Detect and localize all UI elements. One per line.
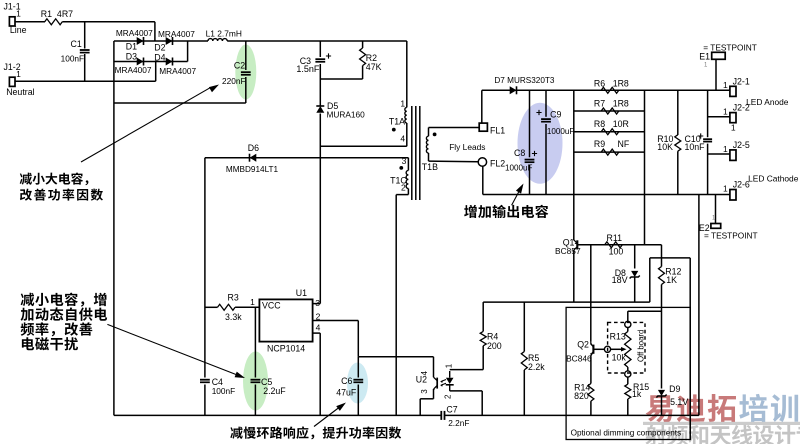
svg-text:R8: R8: [594, 119, 605, 129]
svg-text:1: 1: [16, 9, 21, 19]
wire ground riser right: [698, 195, 700, 416]
wire R1 to bridge AC1: [62, 21, 155, 23]
inductor L1: [208, 39, 227, 41]
annotation arrow to C2: [81, 88, 210, 162]
wire bridge row1 / DC rail: [114, 40, 208, 42]
wire sense bus left down to Q1 emitter: [573, 90, 575, 240]
svg-text:BC857: BC857: [555, 246, 581, 256]
zener diode D9: [656, 390, 666, 398]
diode D1: [137, 37, 144, 45]
svg-text:4: 4: [316, 323, 321, 333]
wire feedback top line: [483, 301, 650, 303]
C9 polarity mark: [536, 110, 541, 115]
svg-text:18V: 18V: [612, 275, 628, 285]
wire R4 top: [482, 302, 484, 331]
highlight ellipse around C8 C9: [518, 103, 563, 184]
wire R8 row: [574, 131, 645, 133]
wire pot top stem: [627, 311, 629, 321]
arrowhead to C8: [516, 182, 526, 194]
svg-text:NF: NF: [618, 139, 630, 149]
svg-text:3: 3: [402, 156, 407, 166]
transformer T1 core: [412, 106, 420, 200]
svg-text:Q2: Q2: [577, 340, 589, 350]
phase dot T1B: [433, 133, 437, 137]
svg-text:R9: R9: [594, 139, 605, 149]
svg-text:3.3k: 3.3k: [225, 312, 242, 322]
watermark divider bar: [643, 422, 800, 425]
svg-text:FL1: FL1: [490, 125, 505, 135]
svg-text:Neutral: Neutral: [6, 87, 34, 97]
wire D8 bottom: [634, 278, 636, 303]
svg-text:1: 1: [723, 80, 728, 90]
wire opto collector: [433, 357, 435, 377]
annotation increase output capacitance: [464, 205, 548, 218]
svg-text:J2-2: J2-2: [733, 103, 750, 113]
diode D2: [166, 37, 173, 45]
wire D8 top: [634, 245, 636, 269]
annotation line4: [22, 337, 78, 350]
svg-text:4: 4: [400, 133, 405, 143]
svg-text:T1B: T1B: [422, 162, 438, 172]
wire LED cathode to ground: [481, 391, 483, 416]
svg-text:100nF: 100nF: [212, 386, 236, 396]
resistor R14: [588, 384, 594, 402]
svg-text:4: 4: [420, 371, 429, 376]
wire T1C pin3 lead: [407, 158, 409, 171]
wire pot bottom lead: [627, 367, 629, 371]
svg-text:NCP1014: NCP1014: [267, 344, 305, 354]
transistor Q2 BC846: [590, 342, 594, 357]
resistor R3: [218, 304, 236, 310]
wire Q1 base row: [577, 244, 661, 246]
svg-text:LED Anode: LED Anode: [746, 97, 789, 107]
resistor R10: [675, 135, 681, 151]
diode D3: [137, 58, 144, 66]
svg-text:MMBD914LT1: MMBD914LT1: [226, 165, 279, 174]
wire C10 bottom / J2 spine: [707, 144, 709, 195]
svg-text:1R8: 1R8: [613, 98, 629, 108]
svg-text:D1: D1: [126, 41, 137, 51]
diode D7: [510, 86, 517, 94]
wire secondary plus rail: [482, 89, 730, 91]
capacitor C6: [353, 380, 363, 383]
svg-text:2.2k: 2.2k: [528, 362, 545, 372]
wire C3 to D5: [319, 64, 321, 106]
wire bridge row2: [114, 61, 188, 63]
svg-text:R3: R3: [228, 293, 239, 303]
highlight ellipse around C2: [235, 45, 256, 100]
wire R5 bottom: [523, 370, 525, 416]
svg-text:R1 4R7: R1 4R7: [41, 9, 73, 19]
svg-text:J2-1: J2-1: [733, 76, 750, 86]
wire R15 to ground: [627, 399, 629, 415]
wire Q2 base to wiper terminal: [594, 348, 604, 350]
annotation arrow to C5: [107, 324, 236, 374]
wire J2-5 stub: [708, 153, 730, 155]
phase dot T1C: [399, 166, 403, 170]
capacitor C4: [200, 380, 210, 383]
wire R5 top: [523, 302, 525, 351]
arrowhead to C6: [336, 400, 348, 411]
svg-text:BC846: BC846: [566, 354, 592, 364]
capacitor C1: [80, 50, 90, 53]
svg-text:2: 2: [444, 394, 453, 399]
wire snubber bottom: [320, 78, 362, 80]
potentiometer R13: [625, 332, 631, 368]
svg-text:D9: D9: [669, 384, 680, 394]
resistor R8: [601, 129, 619, 135]
resistor R4: [480, 331, 486, 345]
resistor R12: [659, 267, 665, 285]
wire R3 to U1 pin1: [235, 306, 259, 308]
wire C10 top / J2 spine: [707, 90, 709, 137]
wire wiper to R13: [611, 348, 622, 350]
C8 polarity mark: [532, 151, 537, 156]
connector J2-2: [730, 113, 736, 123]
wire C1 bottom: [84, 54, 86, 81]
svg-text:2: 2: [401, 182, 406, 192]
transformer winding T1A: [405, 107, 407, 123]
wire C5 to ground: [254, 385, 256, 416]
wire C2 return to DC minus: [114, 102, 246, 104]
svg-text:47uF: 47uF: [336, 388, 357, 398]
svg-text:D4: D4: [154, 52, 165, 62]
highlight ellipse around C6: [347, 363, 368, 404]
C3 polarity mark: [326, 53, 331, 58]
connector circle R13 top terminal: [625, 321, 631, 327]
svg-text:LED Cathode: LED Cathode: [748, 173, 799, 183]
wire AC1 down to D1-D2 junction: [154, 22, 156, 41]
svg-text:200: 200: [487, 341, 502, 351]
connector J1-2: [9, 77, 15, 86]
wire Q1 collector down: [573, 250, 575, 302]
wire J1-1 to R1: [15, 21, 45, 23]
capacitor C3: [315, 59, 325, 62]
wire emitter to ground: [419, 399, 421, 416]
connector J1-1: [9, 17, 15, 26]
svg-text:1: 1: [731, 123, 736, 133]
transformer winding T1B: [426, 136, 428, 153]
svg-text:C2: C2: [234, 61, 245, 71]
svg-text:1000uF: 1000uF: [505, 164, 533, 173]
wire AC2 up to D3-D4 junction: [155, 62, 157, 82]
resistor R15: [625, 384, 631, 399]
wire R10 bottom: [677, 151, 679, 194]
wire opto emitter: [433, 389, 435, 399]
resistor R1: [45, 19, 63, 25]
dashed off-board box for R13: [608, 322, 645, 373]
testpoint E1 pad: [712, 52, 726, 59]
svg-text:10nF: 10nF: [685, 142, 706, 152]
watermark blue text 培训: [739, 394, 798, 422]
svg-text:= TESTPOINT: = TESTPOINT: [703, 43, 757, 53]
wiper arrowhead: [621, 347, 627, 352]
svg-text:1: 1: [445, 363, 454, 368]
wire opto LED anode to R4: [450, 369, 484, 371]
svg-text:R7: R7: [594, 98, 605, 108]
wire R12 to D9: [661, 285, 663, 389]
svg-text:FL2: FL2: [490, 158, 505, 168]
diode D6: [250, 154, 257, 162]
resistor R7: [601, 108, 619, 114]
annotation reduce bulk capacitor line1: [20, 172, 89, 185]
highlight ellipse around C5: [243, 352, 268, 411]
wire Neutral from J1-2: [15, 80, 156, 82]
wire C8 bottom: [529, 165, 531, 195]
connector J2-1: [730, 86, 736, 96]
wire R12 top: [661, 245, 663, 267]
opto light arrows: [441, 380, 446, 386]
svg-text:10R: 10R: [613, 119, 629, 129]
connector FL2: [478, 158, 486, 166]
wire pot top lead: [627, 328, 629, 332]
testpoint E2 pad: [711, 224, 721, 229]
svg-text:Fly Leads: Fly Leads: [449, 142, 485, 152]
wire R9 row: [574, 151, 645, 153]
resistor R5: [521, 352, 527, 370]
svg-text:R11: R11: [607, 233, 623, 243]
wire pot top to R12 net: [628, 310, 662, 312]
wire J2-2 stub: [708, 116, 730, 118]
watermark red text 易迪拓: [646, 394, 736, 422]
connector FL1: [479, 123, 487, 131]
connector J2-5: [730, 150, 736, 161]
wire R2 top: [362, 41, 364, 48]
capacitor C7: [441, 411, 444, 420]
annotation line3: [21, 322, 93, 336]
wire T1A pin4 lead: [406, 123, 408, 146]
svg-text:5.1V: 5.1V: [670, 397, 688, 407]
arrowhead to C2: [209, 82, 221, 92]
svg-text:1: 1: [400, 99, 405, 109]
svg-text:MRA4007: MRA4007: [116, 28, 153, 38]
wire C5 top: [254, 307, 256, 377]
wire U1 pin2 feedback: [313, 320, 359, 322]
wire down right side of optional box: [689, 258, 691, 440]
svg-text:J2-6: J2-6: [733, 179, 750, 189]
svg-text:J2-5: J2-5: [733, 140, 750, 150]
wire bridge right node: [187, 41, 189, 62]
wire T1C return to ground: [395, 195, 397, 416]
wire T1A pin1 lead: [406, 41, 408, 107]
svg-text:Optional dimming components: Optional dimming components: [571, 429, 682, 438]
svg-text:Off board: Off board: [637, 330, 646, 362]
annotation line2: [21, 307, 108, 320]
svg-text:C7: C7: [446, 404, 457, 414]
annotation arrow to C8: [512, 190, 520, 206]
wire R14 to ground: [590, 401, 592, 415]
svg-text:1: 1: [250, 297, 255, 307]
wire U1 pin4 stub: [313, 332, 321, 334]
svg-text:1: 1: [16, 69, 21, 79]
wire C8 top: [529, 90, 531, 157]
wire aux to R3 and C4: [204, 158, 206, 378]
svg-text:T1A: T1A: [389, 117, 405, 127]
svg-text:C9: C9: [550, 110, 561, 120]
wire elbow right: [650, 257, 690, 259]
svg-text:1: 1: [723, 107, 728, 117]
wire T1B to FL2: [429, 160, 479, 163]
svg-text:3: 3: [315, 298, 320, 308]
opto U2 LED: [449, 371, 451, 378]
resistor R9: [601, 149, 619, 155]
wire feedback to opto collector: [358, 356, 433, 358]
svg-text:2.2uF: 2.2uF: [263, 386, 286, 396]
wire aux T1C pin3 to D6: [205, 157, 409, 159]
svg-text:MRA4007: MRA4007: [158, 29, 195, 39]
svg-text:1k: 1k: [632, 389, 642, 399]
transformer winding T1C: [406, 170, 408, 188]
wire R3 left: [205, 306, 218, 308]
svg-text:R6: R6: [594, 79, 605, 89]
wire C3 top: [319, 41, 321, 57]
wire T1B bottom stub: [428, 153, 430, 161]
svg-text:100: 100: [609, 247, 624, 257]
phase dot T1A: [392, 128, 396, 132]
svg-text:R13: R13: [610, 331, 626, 341]
capacitor C5: [251, 380, 261, 383]
capacitor C8: [525, 160, 535, 163]
svg-text:VCC: VCC: [262, 301, 281, 311]
wire C9 bottom: [545, 124, 547, 195]
wire T1B to FL1: [429, 127, 479, 129]
wire DC minus left vertical: [113, 41, 115, 415]
connector J2-6: [730, 190, 736, 201]
wire R2 bottom: [362, 66, 364, 79]
wire R10 top: [677, 90, 679, 135]
wire U1 pin4 to ground: [319, 333, 321, 415]
wire T1C pin2: [396, 194, 408, 196]
diode D5: [316, 106, 324, 113]
annotation improve PF line2: [20, 189, 103, 201]
svg-text:U1: U1: [296, 288, 307, 298]
diode D4: [166, 58, 173, 66]
wire drain vertical to U1 pin3: [319, 114, 321, 304]
wire feedback down: [357, 321, 359, 357]
connector circle pot wiper: [604, 346, 610, 352]
opto transistor U2: [434, 377, 438, 380]
svg-text:E1: E1: [699, 52, 710, 62]
resistor R6: [601, 87, 619, 93]
op-amp U1 NCP1014 body: [259, 299, 312, 341]
svg-text:D7 MURS320T3: D7 MURS320T3: [494, 76, 555, 85]
connector circle R13 bottom terminal: [625, 371, 631, 377]
wire rail L1 to T1A pin1: [227, 40, 407, 42]
wire E2 stem: [715, 195, 717, 224]
svg-text:1.5nF: 1.5nF: [296, 64, 320, 74]
svg-text:D6: D6: [248, 143, 259, 153]
transistor Q1 BC857: [574, 240, 578, 250]
wire C9 top: [545, 90, 547, 117]
optional dimming components box: [566, 307, 690, 439]
wire R7 row: [574, 110, 645, 112]
zener diode D8: [630, 271, 640, 279]
capacitor C10: [703, 139, 712, 141]
wire C2 bottom: [245, 77, 247, 103]
wire R4 bottom: [482, 346, 484, 370]
svg-text:10k: 10k: [612, 353, 627, 363]
wire secondary ground rail right: [483, 194, 730, 196]
wire C4 to ground: [204, 385, 206, 416]
capacitor C2: [241, 72, 251, 75]
svg-text:1K: 1K: [666, 275, 677, 285]
wire C2 top: [245, 41, 247, 70]
svg-text:C6: C6: [341, 376, 352, 386]
wire FL2 elbow: [482, 166, 484, 194]
svg-text:L1 2.7mH: L1 2.7mH: [206, 29, 242, 39]
svg-text:MURA160: MURA160: [327, 110, 366, 120]
svg-text:D3: D3: [126, 51, 137, 61]
wire C1 top: [84, 22, 86, 49]
svg-text:100nF: 100nF: [61, 54, 85, 64]
arrowhead to C5: [235, 372, 246, 381]
wire C6 to ground: [357, 385, 359, 416]
resistor R11: [605, 242, 623, 248]
wire D9 to ground: [661, 397, 663, 416]
svg-text:MRA4007: MRA4007: [115, 65, 152, 75]
wire pot to R15: [627, 377, 629, 384]
svg-text:1000uF: 1000uF: [547, 127, 575, 136]
svg-text:MRA4007: MRA4007: [159, 66, 196, 76]
wire Q1 base row to Q2 collector: [590, 245, 592, 342]
svg-text:C8: C8: [514, 148, 525, 158]
svg-text:10K: 10K: [657, 142, 673, 152]
watermark grey text 射频和天线设计专家: [645, 425, 800, 444]
wire U1 pin3 stub: [313, 303, 321, 305]
svg-text:C1: C1: [71, 39, 82, 49]
svg-text:2.2nF: 2.2nF: [448, 418, 469, 428]
svg-text:3: 3: [420, 389, 429, 394]
wire emitter elbow: [420, 398, 433, 400]
wire sense bus right down to R11: [644, 90, 646, 245]
svg-text:D2: D2: [154, 43, 165, 53]
wire Q2 emitter to R14: [590, 357, 592, 384]
svg-text:820: 820: [574, 391, 589, 401]
C10 polarity mark: [698, 133, 703, 138]
capacitor C9: [541, 119, 551, 122]
wire FL1 riser: [481, 90, 483, 123]
wire elbow up: [649, 258, 651, 302]
svg-text:= TESTPOINT: = TESTPOINT: [704, 231, 758, 241]
wire T1C pin2 stub: [407, 189, 409, 195]
resistor R2: [360, 48, 366, 66]
wire T1A pin4: [320, 145, 407, 147]
wire secondary ground rail: [445, 414, 699, 416]
wire T1B top lead: [428, 128, 430, 137]
wire C6 top: [357, 357, 359, 378]
annotation slow loop response: [230, 426, 401, 439]
svg-text:1R8: 1R8: [613, 79, 629, 89]
wire E1 stem: [715, 59, 717, 90]
svg-text:220nF: 220nF: [222, 76, 246, 86]
svg-text:47K: 47K: [366, 62, 382, 72]
svg-text:1: 1: [723, 184, 728, 194]
wire primary ground rail: [114, 414, 441, 416]
wire opto LED cathode: [450, 390, 483, 392]
annotation arrow to C6: [314, 408, 339, 427]
svg-text:2: 2: [316, 312, 321, 322]
svg-text:1: 1: [723, 144, 728, 154]
annotation line1: [21, 293, 107, 307]
